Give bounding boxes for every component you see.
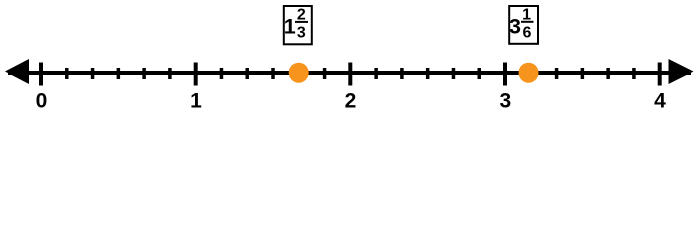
major tick 0 xyxy=(39,63,43,86)
minor ticks (sixths) xyxy=(67,68,634,79)
major tick 3 xyxy=(503,63,507,86)
svg-text:3: 3 xyxy=(509,15,521,39)
svg-text:1: 1 xyxy=(190,90,202,112)
fraction bar of 1/6 xyxy=(521,21,534,23)
svg-text:6: 6 xyxy=(523,24,532,41)
svg-text:2: 2 xyxy=(345,90,357,112)
svg-text:1: 1 xyxy=(284,15,296,39)
number line axis xyxy=(8,71,691,75)
point at 1 2/3 xyxy=(289,63,309,83)
left arrowhead xyxy=(5,59,29,84)
right arrowhead xyxy=(669,59,694,84)
label box 3 1/6 xyxy=(509,6,538,44)
major tick 4 xyxy=(658,63,662,86)
label box 1 2/3 xyxy=(284,6,312,44)
point at 3 1/6 xyxy=(519,63,539,83)
svg-text:0: 0 xyxy=(36,90,48,112)
svg-text:4: 4 xyxy=(654,90,666,112)
fraction bar of 2/3 xyxy=(295,21,308,23)
svg-text:3: 3 xyxy=(297,25,306,42)
major tick 2 xyxy=(348,63,352,86)
major tick 1 xyxy=(194,63,198,86)
svg-text:3: 3 xyxy=(499,90,511,112)
